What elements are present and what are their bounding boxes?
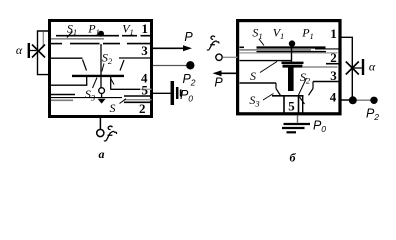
right seat mark (b) xyxy=(309,89,314,96)
left seat mark xyxy=(83,60,87,71)
chamber 5 outer wall (b) xyxy=(302,96,304,113)
chamber 5 right wall (b) xyxy=(298,96,300,113)
sub-chamber right lid xyxy=(111,88,140,90)
left wall tick (b) xyxy=(240,46,245,48)
poppet plug xyxy=(98,99,106,104)
port 2 upper line xyxy=(124,101,152,103)
svg-text:3: 3 xyxy=(141,43,148,58)
chamber line left (b) xyxy=(240,60,292,62)
thick stem (b) xyxy=(288,68,294,92)
throttle tick xyxy=(30,50,37,52)
port 2 gray line xyxy=(124,99,152,101)
vent line P0 (a) xyxy=(153,92,171,94)
right elbow (b) xyxy=(312,82,314,89)
svg-text:2: 2 xyxy=(139,101,146,116)
nozzle contact dot (b) xyxy=(289,40,295,46)
membrane gray line xyxy=(51,38,104,40)
bottom membrane line left xyxy=(51,94,75,96)
chamber line segment a xyxy=(51,43,62,45)
vent stem P0 (b) xyxy=(297,116,299,123)
port 4 output line (b) xyxy=(342,99,354,101)
chamber line segment b xyxy=(70,43,100,45)
chamber 5 left wall (b) xyxy=(283,96,285,113)
output arrow P xyxy=(153,47,184,49)
svg-text:3: 3 xyxy=(330,68,337,83)
membrane gray bar (b) xyxy=(240,49,312,51)
sub-chamber right lid gray tail xyxy=(140,88,152,90)
nozzle contact dot P1 xyxy=(98,31,104,37)
feedback gray channel xyxy=(42,32,44,48)
svg-text:1: 1 xyxy=(141,21,148,36)
leader S1 xyxy=(67,32,73,38)
junction node (b) xyxy=(349,96,357,104)
svg-text:5: 5 xyxy=(141,83,148,98)
script F symbol (a) xyxy=(104,126,116,141)
chamber lid left (b) xyxy=(240,82,277,84)
leader S3 (b) xyxy=(263,94,274,101)
poppet stem xyxy=(101,94,103,99)
membrane clamp line (b) xyxy=(257,51,327,53)
sub-chamber left wall xyxy=(86,77,88,85)
leader S3 xyxy=(93,78,98,89)
svg-text:а: а xyxy=(99,147,105,161)
svg-text:1: 1 xyxy=(330,26,337,41)
valve stem S2 xyxy=(100,44,102,88)
svg-text:P: P xyxy=(184,30,193,44)
relay body box (b) xyxy=(238,21,340,114)
throttle bar (b) xyxy=(362,59,364,75)
leader S1 (b) xyxy=(259,39,264,46)
svg-text:б: б xyxy=(290,151,297,165)
port 1 lower line xyxy=(127,43,152,45)
throttle bar xyxy=(28,43,30,58)
sub-chamber right wall xyxy=(110,77,112,90)
port 3 line (b) xyxy=(313,81,341,83)
gray line right (b) xyxy=(302,66,338,68)
nozzle bar lower (b) xyxy=(283,65,303,68)
stem upper (b) xyxy=(291,46,293,62)
chamber 3 right wall line xyxy=(119,57,152,59)
throttle valve X (a) xyxy=(32,45,45,58)
membrane gray line (b) xyxy=(240,52,338,54)
chamber line segment c xyxy=(103,43,120,45)
leader S2 xyxy=(102,64,104,72)
chamber 3 left wall line xyxy=(51,57,83,59)
input gray line (b) xyxy=(223,56,238,58)
vent bars P0 (b) xyxy=(284,123,311,125)
svg-text:P: P xyxy=(214,76,223,90)
feedback wire left xyxy=(38,31,49,75)
force input circle (a) xyxy=(97,129,104,136)
output arrow P (b) xyxy=(221,72,238,74)
S2 leader (b) xyxy=(299,78,307,95)
output line P2 (a) xyxy=(153,65,187,67)
feedback wire right (b) xyxy=(342,37,353,100)
svg-text:S: S xyxy=(110,101,116,115)
valve plate (b) xyxy=(272,95,304,97)
svg-text:α: α xyxy=(16,43,23,57)
bottom membrane gray line xyxy=(51,99,73,101)
membrane top line segment 2 xyxy=(122,35,137,37)
svg-text:2: 2 xyxy=(330,50,337,65)
nozzle bar upper (b) xyxy=(282,62,304,64)
throttle tick (b) xyxy=(352,67,362,69)
port 2 line (b) xyxy=(326,63,341,65)
node P2 (a) xyxy=(186,61,194,69)
script F symbol (b) xyxy=(207,36,219,50)
left seat mark (b) xyxy=(276,89,281,96)
port 1 upper line xyxy=(141,35,152,37)
svg-text:5: 5 xyxy=(288,99,295,114)
force input stem (a) xyxy=(99,118,101,130)
right tick mark xyxy=(111,79,114,85)
seat diagonal (b) xyxy=(300,97,305,104)
left elbow (b) xyxy=(275,83,277,89)
node P2 (b) xyxy=(370,97,377,104)
vent symbol P0 (a) xyxy=(171,81,175,105)
svg-text:4: 4 xyxy=(330,90,337,105)
relay body box (a) xyxy=(50,21,152,117)
svg-text:S: S xyxy=(250,69,256,83)
bottom membrane thin line xyxy=(51,97,122,99)
port 4 output gray line (b) xyxy=(353,99,371,101)
right seat mark xyxy=(120,60,124,71)
throttle valve X (b) xyxy=(346,62,359,75)
svg-text:α: α xyxy=(369,60,376,74)
leader S (b) xyxy=(260,62,277,73)
input circle (b) xyxy=(216,54,222,60)
leader S xyxy=(120,99,127,104)
port 5 lower line xyxy=(124,95,152,97)
poppet circle xyxy=(99,88,105,94)
membrane thin line right (b) xyxy=(315,48,341,50)
sub-chamber left lid xyxy=(51,84,87,86)
membrane top line xyxy=(56,35,119,37)
flapper plate xyxy=(72,75,124,77)
membrane plate line (b) xyxy=(257,46,326,48)
